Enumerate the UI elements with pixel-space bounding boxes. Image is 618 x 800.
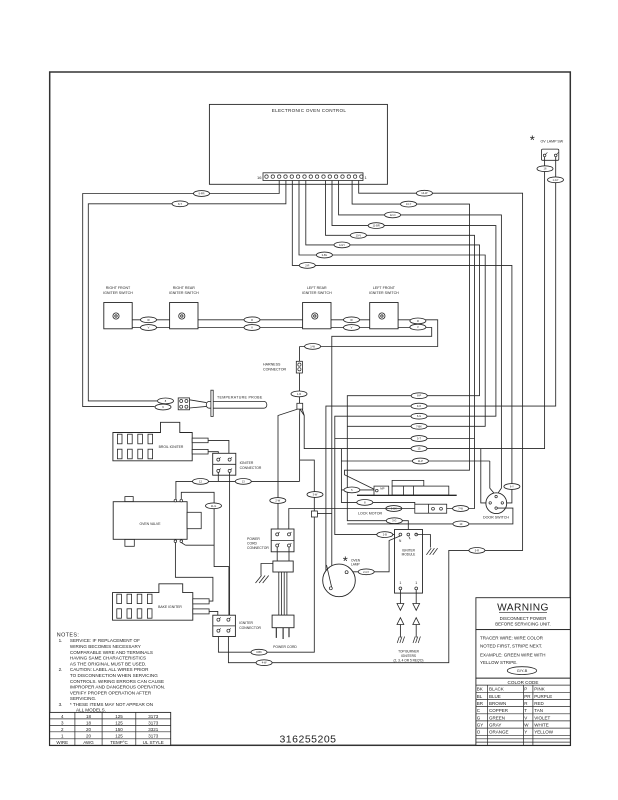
wire igniter row to valve <box>176 481 300 500</box>
oven lamp switch OV LAMP SW <box>541 140 564 161</box>
wire branch row to module net <box>335 438 475 440</box>
svg-text:WIRE: WIRE <box>56 740 68 745</box>
wire rail upper seg2 <box>198 319 303 321</box>
svg-text:RED: RED <box>534 701 544 706</box>
connector lock motor upper <box>357 500 373 506</box>
spark module <box>395 530 423 594</box>
wire branch to motor MP <box>341 489 374 491</box>
svg-text:CAUTION: LABEL ALL WIRES PRI: CAUTION: LABEL ALL WIRES PRIOR <box>70 667 149 672</box>
wire valve loop <box>181 492 229 566</box>
connector on junction riser <box>307 492 323 498</box>
svg-text:IGNITER SWITCH: IGNITER SWITCH <box>369 291 399 295</box>
svg-text:1.: 1. <box>59 638 63 643</box>
svg-text:20: 20 <box>86 727 92 732</box>
connector door switch feed <box>504 484 520 490</box>
svg-text:11-BR: 11-BR <box>373 224 380 228</box>
wire pin10 bus to module center pin <box>306 181 480 534</box>
svg-text:2-R: 2-R <box>305 263 309 267</box>
svg-text:GY: GY <box>477 723 484 728</box>
svg-text:IGNITERS: IGNITERS <box>401 654 416 658</box>
lock motor connector <box>415 504 447 513</box>
temperature probe <box>206 390 266 416</box>
wire valve lower tie <box>185 544 214 546</box>
igniter switch SW1 RIGHT FRONT <box>103 286 133 329</box>
svg-text:8-P: 8-P <box>417 394 421 398</box>
stub <box>415 533 417 534</box>
connector pair probe <box>158 398 174 404</box>
svg-text:EXAMPLE: GREEN WIRE WITH: EXAMPLE: GREEN WIRE WITH <box>480 653 546 658</box>
svg-text:LEFT FRONT: LEFT FRONT <box>373 286 396 290</box>
svg-text:1-W: 1-W <box>310 344 315 348</box>
svg-text:GREEN: GREEN <box>489 715 505 720</box>
connector MP wire <box>344 487 360 493</box>
svg-text:W: W <box>524 723 529 728</box>
connector on pin14 wire <box>194 191 210 197</box>
cable splay block <box>297 403 303 409</box>
harness connector <box>263 361 302 373</box>
wire broil conn left pin down <box>217 472 219 481</box>
svg-text:OV LAMP SW: OV LAMP SW <box>541 140 564 144</box>
strain relief block <box>273 561 293 572</box>
connector igniter row right <box>235 479 251 485</box>
wire pin3 bus to lock motor MP <box>345 181 470 491</box>
svg-text:BAKE IGNITER: BAKE IGNITER <box>158 605 182 609</box>
svg-text:VIOLET: VIOLET <box>534 715 550 720</box>
wire probe taper lower <box>190 406 207 408</box>
svg-text:CONNECTOR: CONNECTOR <box>239 626 261 630</box>
svg-text:V: V <box>251 326 253 330</box>
power cord cable <box>279 572 287 615</box>
wire power cord pin to lock motor connector <box>289 509 415 530</box>
svg-text:3173: 3173 <box>148 720 159 725</box>
connector on valve loop <box>206 503 222 509</box>
power cord connector <box>247 529 294 552</box>
svg-text:2.: 2. <box>59 667 63 672</box>
bake igniter <box>113 584 210 620</box>
svg-text:TO DISCONNECTION WHEN SERVICIN: TO DISCONNECTION WHEN SERVICING <box>70 673 158 678</box>
svg-text:BL: BL <box>477 694 483 699</box>
svg-text:BROWN: BROWN <box>489 701 506 706</box>
svg-text:3.: 3. <box>59 702 63 707</box>
connector module center <box>386 518 402 524</box>
wire door switch common riser <box>490 461 496 496</box>
wire splay right stub <box>302 409 304 415</box>
wire door switch bottom to net <box>347 508 513 524</box>
svg-text:BR: BR <box>477 701 484 706</box>
notes block <box>57 633 165 713</box>
wire pin12 bus to door switch right pin <box>292 181 512 503</box>
svg-text:9-PR: 9-PR <box>199 192 205 196</box>
wire harness to splay <box>299 373 301 403</box>
igniter switch SW4 LEFT FRONT <box>369 286 399 329</box>
wire module output 416 <box>415 590 417 604</box>
svg-text:2-GY: 2-GY <box>363 570 369 574</box>
connector lock motor left <box>386 506 402 512</box>
connector door bottom wire <box>453 521 469 527</box>
svg-text:POWER: POWER <box>247 537 260 541</box>
svg-text:RIGHT FRONT: RIGHT FRONT <box>106 286 131 290</box>
svg-text:SERVICE: IF REPLACEMENT OF: SERVICE: IF REPLACEMENT OF <box>70 638 140 643</box>
feather marks x=400 <box>397 637 404 644</box>
electronic oven control EOC <box>209 104 387 184</box>
svg-text:COLOR CODE: COLOR CODE <box>508 680 539 685</box>
svg-text:NOTED FIRST, STRIPE NEXT.: NOTED FIRST, STRIPE NEXT. <box>480 643 542 648</box>
wire splay mid branch to junction <box>300 460 315 511</box>
svg-text:TEMP°C: TEMP°C <box>110 740 128 745</box>
wire valve pin diag <box>181 543 185 546</box>
svg-text:DISCONNECT POWER: DISCONNECT POWER <box>500 616 547 621</box>
svg-text:O: O <box>477 730 481 735</box>
svg-text:RIGHT REAR: RIGHT REAR <box>173 286 196 290</box>
wire broil prong1 to connector <box>208 440 229 458</box>
svg-text:IGNITER SWITCH: IGNITER SWITCH <box>169 291 199 295</box>
wire rail upper to harness <box>300 320 438 347</box>
svg-text:3173: 3173 <box>148 714 159 719</box>
svg-text:V: V <box>524 715 527 720</box>
svg-text:GRAY: GRAY <box>489 723 501 728</box>
svg-text:150: 150 <box>115 727 123 732</box>
svg-text:TOP BURNER: TOP BURNER <box>398 650 419 654</box>
connector lock motor right <box>453 506 469 512</box>
wire rail lower seg1 <box>132 327 169 329</box>
svg-text:ELECTRONIC OVEN CONTROL: ELECTRONIC OVEN CONTROL <box>272 108 347 113</box>
svg-text:YELLOW STRIPE.: YELLOW STRIPE. <box>480 660 518 665</box>
wire burner igniter lead 416 <box>415 625 417 638</box>
svg-text:R: R <box>417 319 419 323</box>
svg-text:3173: 3173 <box>148 734 159 739</box>
wire pin2 bus to bake igniter connector <box>228 181 522 663</box>
wire pin7 bus to lock motor right <box>326 181 475 509</box>
spade terminal down x=400 <box>397 604 404 611</box>
connector fan row lamp <box>411 403 427 409</box>
ground symbol power cord <box>256 576 269 584</box>
connector splay left <box>270 498 286 504</box>
svg-text:OVEN VALVE: OVEN VALVE <box>140 522 162 526</box>
svg-text:LAMP: LAMP <box>351 563 360 567</box>
wire ground lead <box>261 564 273 576</box>
connector igniter row left <box>193 479 209 485</box>
junction block <box>311 511 317 517</box>
connector pair on igniter rail x=351.5 <box>344 317 360 323</box>
wire rail lower seg3 <box>331 327 370 329</box>
svg-text:WHITE: WHITE <box>534 723 549 728</box>
connector on pin3 wire <box>401 201 417 207</box>
wire to lock motor connector upper <box>341 449 414 505</box>
svg-text:COMPARABLE WIRE AND TERMINALS: COMPARABLE WIRE AND TERMINALS <box>70 650 153 655</box>
color code table <box>476 678 570 745</box>
svg-text:VERIFY PROPER OPERATION AFTER: VERIFY PROPER OPERATION AFTER <box>70 690 152 695</box>
connector fan row top <box>411 393 427 399</box>
svg-text:G/Y-B: G/Y-B <box>517 668 528 673</box>
svg-text:WARNING: WARNING <box>497 603 549 614</box>
svg-text:V: V <box>148 326 150 330</box>
wire lamp switch left to harness splay <box>300 157 544 449</box>
svg-text:CONNECTOR: CONNECTOR <box>240 466 262 470</box>
svg-text:*: * <box>530 133 535 148</box>
svg-text:LEFT REAR: LEFT REAR <box>307 286 327 290</box>
svg-text:CONTROLS. WIRING ERRORS CAN: CONTROLS. WIRING ERRORS CAN CAUSE <box>70 679 164 684</box>
svg-text:1: 1 <box>415 581 417 585</box>
wire junction to bake connector left <box>218 517 314 652</box>
svg-text:LOCK MOTOR: LOCK MOTOR <box>358 511 382 515</box>
svg-text:COPPER: COPPER <box>489 708 509 713</box>
svg-text:T: T <box>524 708 527 713</box>
svg-text:YELLOW: YELLOW <box>534 730 554 735</box>
svg-text:125: 125 <box>115 714 123 719</box>
svg-text:IGNITER SWITCH: IGNITER SWITCH <box>302 291 332 295</box>
svg-text:CONNECTOR: CONNECTOR <box>263 368 286 372</box>
connector on lamp switch right wire <box>548 177 564 183</box>
spade terminal up x=416 <box>413 618 420 625</box>
wire probe taper upper <box>190 400 207 403</box>
wire splay mid to igniter connector row <box>299 409 301 481</box>
connector on pin11 wire <box>316 252 332 258</box>
svg-text:PINK: PINK <box>534 687 545 692</box>
connector pair on igniter rail x=148.5 <box>141 317 157 323</box>
warning box <box>476 598 570 630</box>
igniter switch SW3 LEFT REAR <box>302 286 332 329</box>
svg-text:CONNECTOR: CONNECTOR <box>247 546 269 550</box>
svg-text:R: R <box>251 318 253 322</box>
wire connector to strain relief L <box>276 547 278 561</box>
svg-text:18: 18 <box>86 720 92 725</box>
svg-text:3-W: 3-W <box>313 493 318 497</box>
svg-text:2-W: 2-W <box>275 499 280 503</box>
connector on pin7 wire <box>350 232 366 238</box>
svg-text:7-BK: 7-BK <box>416 424 422 428</box>
svg-text:BLACK: BLACK <box>489 687 504 692</box>
svg-text:125: 125 <box>115 734 123 739</box>
svg-text:PR: PR <box>524 694 531 699</box>
connector on pin10 wire <box>334 242 350 248</box>
wire splay left to power cord connector <box>278 409 298 529</box>
wire pin13 to temp probe (upper) <box>88 181 286 401</box>
broil igniter connector <box>213 453 262 475</box>
connector at module input <box>377 532 393 538</box>
svg-text:1: 1 <box>399 581 401 585</box>
svg-text:TEMPERATURE PROBE: TEMPERATURE PROBE <box>217 396 263 400</box>
feather marks x=416 <box>413 637 420 644</box>
svg-text:6-G: 6-G <box>417 414 421 418</box>
connector below harness <box>291 391 307 397</box>
connector fan row <box>411 423 427 429</box>
svg-text:BLUE: BLUE <box>489 694 501 699</box>
svg-text:ORANGE: ORANGE <box>489 730 509 735</box>
wire module N pin to oven lamp <box>348 536 400 572</box>
tracer example connector <box>507 667 536 675</box>
svg-text:2-B: 2-B <box>383 533 387 537</box>
plug prongs <box>276 628 289 639</box>
wire fan row door common <box>341 460 489 462</box>
wire valve left pin to bake prong1 <box>175 543 213 602</box>
connector on pin2 lower run <box>469 548 485 554</box>
svg-text:14-W: 14-W <box>421 191 428 195</box>
svg-text:4-W: 4-W <box>262 661 267 665</box>
svg-text:IMPROPER AND DANGEROUS OPERATI: IMPROPER AND DANGEROUS OPERATION. <box>70 685 165 690</box>
svg-text:6-Y: 6-Y <box>510 485 514 489</box>
connector on bake connector wire <box>251 649 267 655</box>
svg-text:WIRING BECOMES NECESSARY: WIRING BECOMES NECESSARY <box>70 644 141 649</box>
connector pair on igniter rail x=252.0 <box>244 317 260 323</box>
connector on pin13 wire <box>172 201 188 207</box>
svg-text:1-GY: 1-GY <box>552 178 558 182</box>
oven lamp <box>323 559 361 597</box>
svg-text:ALL MODELS.: ALL MODELS. <box>76 708 106 713</box>
wire broil prong2 to connector <box>208 452 218 459</box>
wire burner igniter lead 400 <box>399 625 401 638</box>
svg-text:16: 16 <box>257 175 262 180</box>
connector on pin12 wire <box>299 263 315 269</box>
connector near power cord <box>256 660 272 666</box>
wire gauge table <box>50 712 171 745</box>
svg-text:3-BL: 3-BL <box>322 253 328 257</box>
door switch <box>483 493 509 520</box>
svg-text:3-G: 3-G <box>392 519 396 523</box>
svg-text:4-GY: 4-GY <box>339 243 345 247</box>
wire harness drop <box>299 347 301 362</box>
wire pin11 bus fan row <box>299 181 485 427</box>
svg-text:20: 20 <box>86 734 92 739</box>
connector on harness wire <box>305 344 321 350</box>
connector on branch row <box>411 436 427 442</box>
svg-text:HAVING SAME CHARACTERISTICS: HAVING SAME CHARACTERISTICS <box>70 656 146 661</box>
svg-text:V: V <box>417 325 419 329</box>
igniter switch SW2 RIGHT REAR <box>169 286 199 329</box>
wire lamp switch right to oven lamp <box>326 157 556 571</box>
svg-text:V: V <box>351 326 353 330</box>
bake igniter connector <box>213 615 262 636</box>
wire door switch left pin riser <box>481 449 489 503</box>
svg-text:MP: MP <box>380 487 384 491</box>
broil igniter <box>113 422 208 461</box>
connector pair on igniter rail x=417.9 <box>410 318 426 324</box>
svg-text:TRACER WIRE: WIRE COLOR: TRACER WIRE: WIRE COLOR <box>480 636 544 641</box>
svg-text:MODULE: MODULE <box>402 553 416 557</box>
schematic outer border <box>50 72 571 745</box>
svg-text:AS THE ORIGINAL MUST BE USED.: AS THE ORIGINAL MUST BE USED. <box>70 661 146 666</box>
EOC connector strip P1 <box>263 173 363 181</box>
connector on pin5 wire <box>385 212 401 218</box>
wire broil conn right pin to bake connector <box>229 472 231 619</box>
svg-text:IGNITER: IGNITER <box>240 461 254 465</box>
wire bake prong2 to connector <box>209 611 218 618</box>
spade terminal down x=416 <box>413 604 420 611</box>
svg-text:11-G: 11-G <box>211 504 217 508</box>
svg-text:11-P: 11-P <box>418 459 424 463</box>
svg-text:IGNITER: IGNITER <box>239 621 253 625</box>
wire loop down to bake connector <box>228 567 230 619</box>
svg-text:TAN: TAN <box>534 708 543 713</box>
label top burner igniters <box>393 650 423 663</box>
svg-text:BEFORE SERVICING UNIT.: BEFORE SERVICING UNIT. <box>495 621 551 626</box>
svg-text:* THESE ITEMS MAY NOT APPEAR O: * THESE ITEMS MAY NOT APPEAR ON <box>70 702 153 707</box>
oven valve <box>113 497 201 547</box>
svg-text:SERVICING.: SERVICING. <box>70 696 96 701</box>
svg-text:8-T: 8-T <box>178 202 182 206</box>
power cord plug <box>272 615 294 628</box>
svg-text:13-Y: 13-Y <box>406 202 412 206</box>
svg-text:12-O: 12-O <box>390 213 396 217</box>
svg-text:BK: BK <box>477 687 483 692</box>
svg-text:BROIL IGNITER: BROIL IGNITER <box>159 445 184 449</box>
spade terminal up x=400 <box>397 618 404 625</box>
svg-text:3-BK: 3-BK <box>256 650 262 654</box>
connector lamp wire <box>358 569 374 575</box>
connector fan row module <box>411 413 427 419</box>
wire rail lower seg2 <box>198 327 303 329</box>
connector fan row lamp switch <box>411 446 427 452</box>
svg-text:316255205: 316255205 <box>279 734 336 746</box>
svg-text:7-W: 7-W <box>458 507 463 511</box>
svg-text:18: 18 <box>86 714 92 719</box>
tracer wire box <box>476 630 570 679</box>
connector on lamp switch left wire <box>537 166 553 172</box>
svg-text:CORD: CORD <box>247 542 258 546</box>
connector on pin6 wire <box>368 223 384 229</box>
connector fan row door <box>412 458 428 464</box>
svg-text:UL STYLE: UL STYLE <box>143 740 164 745</box>
svg-text:HARNESS: HARNESS <box>263 363 281 367</box>
wire rail lower to oven lamp <box>331 328 432 589</box>
wire pin6 bus to spark module <box>332 181 496 535</box>
wire rail upper seg3 <box>331 319 370 321</box>
svg-text:(2, 3, 4 OR 5 REQ'D): (2, 3, 4 OR 5 REQ'D) <box>393 659 423 663</box>
svg-text:Y: Y <box>524 730 527 735</box>
svg-text:POWER CORD: POWER CORD <box>273 645 297 649</box>
lock motor assembly <box>357 480 457 515</box>
wire rail upper seg1 <box>132 319 169 321</box>
wire pin5 bus to door switch <box>339 181 502 496</box>
svg-text:DOOR SWITCH: DOOR SWITCH <box>483 516 509 520</box>
svg-text:AWG: AWG <box>83 740 94 745</box>
svg-text:3321: 3321 <box>148 727 159 732</box>
svg-text:P: P <box>524 687 527 692</box>
wire junction to lamp net <box>317 513 331 515</box>
svg-text:PURPLE: PURPLE <box>534 694 552 699</box>
svg-text:10-V: 10-V <box>356 233 362 237</box>
svg-text:125: 125 <box>115 720 123 725</box>
wire connector to strain relief R <box>288 547 290 561</box>
svg-text:IGNITER SWITCH: IGNITER SWITCH <box>103 291 133 295</box>
svg-text:1-R: 1-R <box>297 392 301 396</box>
svg-text:9-O: 9-O <box>417 404 421 408</box>
ground symbol module <box>426 548 437 555</box>
connector on pin2 wire <box>416 190 432 196</box>
wire pin14 to temp probe (lower) <box>83 181 280 407</box>
svg-text:5-T: 5-T <box>417 437 421 441</box>
wire module output 400 <box>399 590 401 604</box>
svg-text:G: G <box>477 715 481 720</box>
probe connector block <box>178 398 189 410</box>
wire module ground lead <box>418 535 431 548</box>
svg-text:5-R: 5-R <box>475 548 479 552</box>
